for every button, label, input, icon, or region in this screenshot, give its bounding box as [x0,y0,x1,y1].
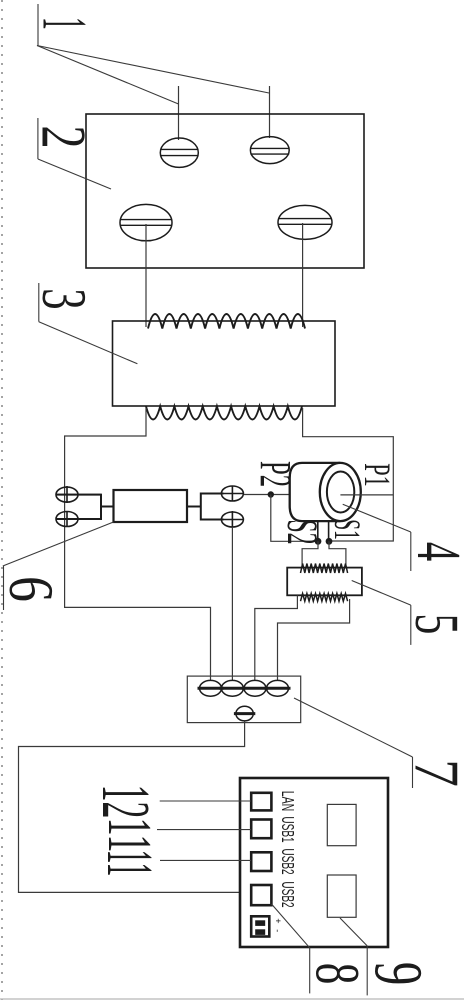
port power pin + [255,920,265,926]
wire comp6 to terminal block [231,527,233,681]
transformer T1 inner face [327,472,354,513]
terminal block screw 2 [221,680,243,696]
wire [269,86,271,138]
terminal block screw 3 [244,680,266,696]
svg-text:-: - [272,929,282,932]
svg-text:12: 12 [88,785,164,819]
screw terminal top-right [250,137,289,164]
wire P2 to S2 node [271,495,318,542]
label 3 [39,283,138,364]
screw terminal bottom-right [278,205,332,239]
wire P1 lead [340,494,393,496]
component 7 terminal block [187,676,300,723]
wire filter left out [255,596,298,682]
port power [251,916,269,936]
terminal circle left-top [56,487,78,502]
svg-text:11: 11 [94,850,167,877]
wire block to router [19,721,245,892]
svg-text:S2: S2 [278,519,326,544]
terminal block screw 1 [200,680,222,696]
wire [1,0,3,1000]
label 7 [294,698,413,788]
terminal circle right-bottom [221,512,243,527]
component 5 filter box [287,568,362,596]
screw terminal top-left [160,138,198,167]
port LAN [251,793,271,811]
transformer T1 ring body [290,463,341,521]
port USB2b [251,885,271,905]
label 4 [343,504,411,571]
wire [0,998,464,1000]
wire breaker left bracket [56,495,114,519]
wire [178,86,180,140]
svg-text:4: 4 [404,542,464,561]
node junction P2 [268,491,274,497]
wire S1 stub [328,521,330,541]
wire S1 to filter [329,541,346,567]
terminal block screw 4 [267,680,289,696]
coil winding bottom [146,406,302,419]
port USB1 [251,820,271,839]
wire P2 lead [244,494,291,496]
wire [302,223,304,327]
svg-text:S1: S1 [326,519,366,540]
svg-text:9: 9 [360,962,437,985]
svg-text:6: 6 [0,576,67,602]
wire left rail [65,408,211,681]
coil winding top [148,314,305,329]
svg-text:P2: P2 [251,461,300,487]
label 9 [340,918,367,995]
component 2 socket box [86,114,364,268]
svg-text:LAN: LAN [277,791,297,812]
node S2 dot [315,538,322,545]
label 8 [272,904,310,993]
terminal block screw 5 [236,706,253,721]
component 6 breaker body [114,490,188,522]
label 11a leader [157,829,251,831]
terminal circle right-top [221,486,243,501]
component 3 coil box [113,321,336,406]
port USB2 [251,852,271,871]
transformer T1 outer face [320,463,361,521]
svg-text:5: 5 [402,614,464,635]
port power pin - [255,929,265,935]
wire filter right out [278,599,350,681]
svg-text:3: 3 [29,288,99,309]
svg-text:7: 7 [402,759,464,787]
svg-text:2: 2 [29,125,99,148]
label 12 leader [160,800,251,802]
wire [145,224,147,327]
label 6 [3,522,114,610]
label 2 [38,118,111,189]
jack rect 2 [327,875,356,917]
jack rect 1 [327,804,356,845]
label 5 [352,581,411,645]
filter hatching top [301,564,348,574]
terminal circle left-bottom [56,512,78,527]
wire S2 stub [317,521,319,541]
svg-text:11: 11 [95,818,163,853]
wire S2 to filter [302,541,318,566]
svg-text:P1: P1 [356,463,397,486]
wire right rail [303,408,394,541]
svg-text:+: + [273,918,283,923]
screw terminal bottom-left [120,204,172,240]
svg-text:USB1: USB1 [277,816,297,842]
svg-text:1: 1 [29,17,99,30]
component 8 router box [240,778,388,947]
node label 1 leader [37,4,269,104]
filter hatching bottom [301,594,348,602]
svg-text:USB2: USB2 [277,848,297,874]
node S1 dot [326,538,333,545]
label 11b leader [160,859,251,861]
wire breaker right bracket [187,494,224,520]
svg-text:USB2: USB2 [277,881,297,907]
